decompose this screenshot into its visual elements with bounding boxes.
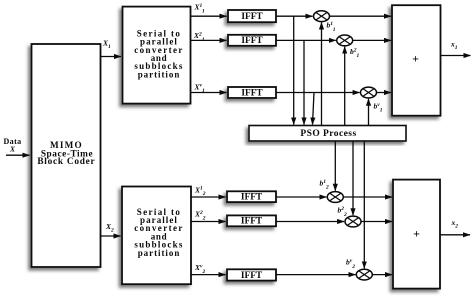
svg-text:partition: partition [138,248,181,258]
svg-text:x1: x1 [450,40,458,52]
svg-text:PSO Process: PSO Process [300,129,356,139]
svg-text:IFFT: IFFT [241,12,263,22]
svg-text:partition: partition [138,69,181,79]
svg-text:IFFT: IFFT [241,217,263,227]
svg-text:IFFT: IFFT [241,88,263,98]
svg-text:+: + [413,226,420,240]
svg-text:IFFT: IFFT [241,193,263,203]
svg-text:bv2: bv2 [346,258,355,270]
svg-text:IFFT: IFFT [241,36,263,46]
svg-text:X1: X1 [102,39,111,51]
svg-text:bv1: bv1 [374,101,383,113]
svg-text:Xv2: Xv2 [194,263,205,275]
svg-text:b21: b21 [350,47,360,59]
svg-text:b22: b22 [338,206,348,218]
svg-text:IFFT: IFFT [241,271,263,281]
svg-text:X11: X11 [194,3,205,15]
svg-text:b12: b12 [320,178,330,190]
svg-text:X2: X2 [105,222,114,234]
svg-text:X22: X22 [194,210,206,222]
svg-text:x2: x2 [451,218,459,230]
svg-text:b11: b11 [327,21,336,33]
svg-text:X12: X12 [194,185,206,197]
svg-text:+: + [412,52,419,66]
svg-text:Block Coder: Block Coder [37,157,95,167]
svg-text:X: X [9,145,16,154]
